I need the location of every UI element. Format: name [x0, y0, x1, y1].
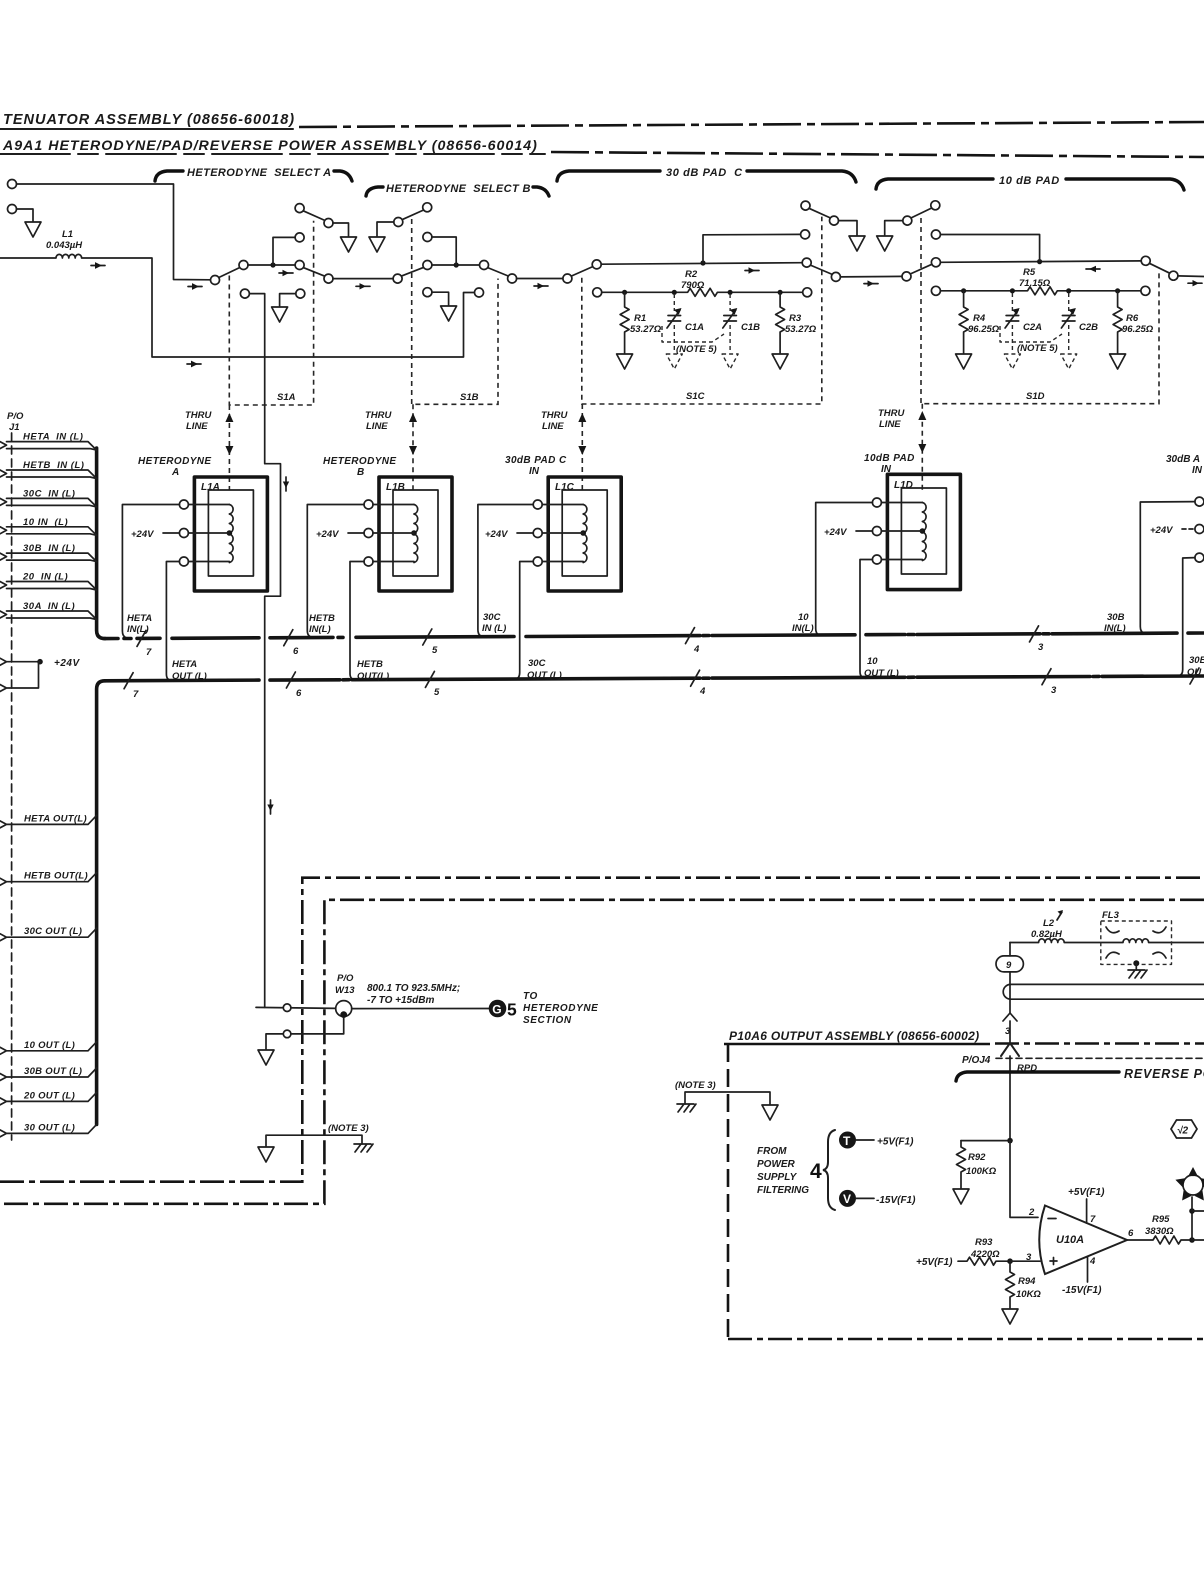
svg-text:HETERODYNE SELECT B: HETERODYNE SELECT B	[386, 183, 531, 195]
svg-text:S1D: S1D	[1026, 391, 1045, 402]
svg-text:IN(L): IN(L)	[309, 624, 331, 635]
heading bracket HETERODYNE SELECT B	[366, 187, 383, 196]
pad lower row with R2 zigzag	[593, 288, 602, 297]
wire note3 grounds	[685, 1092, 770, 1104]
relay L1C terminals	[533, 500, 542, 509]
ground	[258, 1050, 274, 1065]
wire count slash 3 bus IN	[1030, 626, 1039, 642]
svg-text:9: 9	[1006, 960, 1012, 971]
ground	[953, 1189, 969, 1204]
pin 4 supply	[1087, 1257, 1089, 1282]
J1 OUT collector heavy wire	[97, 681, 105, 1125]
svg-text:S1C: S1C	[686, 391, 705, 402]
FL3 ground junction	[1133, 960, 1139, 966]
inductor L1	[0, 254, 475, 357]
contact circle	[324, 219, 333, 228]
pin 7 supply	[1086, 1199, 1088, 1223]
svg-text:L2: L2	[1043, 918, 1055, 929]
ground	[369, 237, 385, 252]
SECTION: bottom left loop, W13, G5	[0, 878, 1204, 1204]
heading bracket 10dB PAD	[876, 179, 993, 189]
SECTION: top-left input	[0, 180, 475, 368]
test point V	[839, 1190, 856, 1207]
svg-text:96.25Ω: 96.25Ω	[968, 324, 1000, 335]
wire W13 to G5	[352, 1008, 489, 1010]
svg-text:L1B: L1B	[386, 482, 405, 493]
coax connector P/O W13	[336, 1001, 352, 1017]
lever	[911, 208, 932, 218]
note 5 dashed outline	[662, 326, 724, 342]
lower contact circle right with ground	[296, 289, 305, 298]
contact circle upper NO	[295, 233, 304, 242]
top pair right: contact circle	[931, 201, 940, 210]
chassis ground	[354, 1144, 373, 1152]
flow arrow	[1188, 282, 1202, 284]
contact circle upper	[423, 233, 432, 242]
heading bracket HETERODYNE SELECT A	[155, 171, 183, 181]
contact circle entry	[902, 272, 911, 281]
svg-text:S1B: S1B	[460, 392, 479, 403]
relay L1A coil	[229, 505, 233, 563]
svg-text:THRU: THRU	[878, 408, 906, 419]
series wire with junction	[940, 261, 1141, 262]
lamp symbol	[1183, 1175, 1203, 1195]
svg-text:HETERODYNE: HETERODYNE	[523, 1003, 598, 1014]
svg-text:IN: IN	[1192, 465, 1203, 476]
svg-text:800.1 TO 923.5MHz;: 800.1 TO 923.5MHz;	[367, 983, 460, 994]
ground	[441, 306, 457, 321]
svg-text:(NOTE 5): (NOTE 5)	[1017, 343, 1058, 354]
svg-text:0.043µH: 0.043µH	[46, 240, 83, 251]
svg-text:53.27Ω: 53.27Ω	[785, 324, 817, 335]
contact circle right	[1141, 256, 1150, 265]
brace	[823, 1130, 835, 1210]
svg-text:3: 3	[1038, 642, 1044, 653]
wire RPD to op-amp pin 2	[1010, 1141, 1038, 1218]
svg-text:R6: R6	[1126, 313, 1139, 324]
svg-text:-7 TO +15dBm: -7 TO +15dBm	[367, 995, 434, 1006]
svg-text:C2B: C2B	[1079, 322, 1098, 333]
relay L1A inner box	[208, 490, 253, 576]
contact circle pad left	[592, 260, 601, 269]
svg-text:10KΩ: 10KΩ	[1016, 1289, 1041, 1300]
svg-text:IN(L): IN(L)	[127, 624, 149, 635]
svg-text:B: B	[357, 467, 364, 478]
contact circle thru left	[324, 274, 333, 283]
svg-text:FILTERING: FILTERING	[757, 1185, 809, 1196]
feedthrough capacitor marks	[1106, 927, 1166, 958]
svg-text:W13: W13	[335, 985, 355, 996]
wire exit right	[1178, 275, 1204, 278]
wire count slash 7 bus IN	[137, 630, 146, 646]
svg-text:OUT(L): OUT(L)	[357, 671, 389, 682]
pin +24V second tied	[0, 662, 40, 692]
switch lever out	[1149, 263, 1169, 273]
wire to ground	[839, 221, 858, 235]
svg-text:R1: R1	[634, 313, 646, 324]
svg-text:IN: IN	[529, 466, 540, 477]
lower contact circle left	[240, 289, 249, 298]
svg-text:IN (L): IN (L)	[482, 623, 506, 634]
border dash-dot line assembly 60014 top	[551, 152, 1204, 157]
svg-text:(NOTE 3): (NOTE 3)	[328, 1123, 369, 1134]
contact circle pad left	[931, 258, 940, 267]
svg-text:2: 2	[1028, 1207, 1035, 1218]
connector J1 dashed line	[11, 433, 13, 1140]
svg-text:+24V: +24V	[1150, 525, 1173, 536]
svg-text:+24V: +24V	[316, 529, 339, 540]
ground	[258, 1147, 274, 1162]
svg-text:HETB: HETB	[309, 613, 335, 624]
svg-text:6: 6	[293, 646, 299, 657]
wire L1B in to bus	[307, 505, 364, 638]
svg-text:S1A: S1A	[277, 392, 296, 403]
relay L1D terminals	[872, 498, 881, 507]
svg-text:+24V: +24V	[824, 527, 847, 538]
relay L1D inner box	[901, 488, 946, 574]
dashed ground C1A	[666, 354, 682, 369]
ground	[877, 236, 893, 251]
svg-text:FL3: FL3	[1102, 910, 1120, 921]
svg-text:LINE: LINE	[366, 421, 388, 432]
svg-text:P/O: P/O	[7, 411, 24, 422]
ground	[25, 222, 41, 237]
svg-text:P/OJ4: P/OJ4	[962, 1055, 991, 1066]
svg-text:+5V(F1): +5V(F1)	[916, 1257, 953, 1268]
underline title 2 dashed	[0, 153, 545, 155]
svg-text:71.15Ω: 71.15Ω	[1019, 278, 1051, 289]
switch lever into pad	[572, 267, 594, 277]
pin +24V	[0, 658, 37, 665]
svg-text:20 OUT (L): 20 OUT (L)	[23, 1090, 75, 1101]
contact circle S1A pole	[239, 261, 248, 270]
svg-text:30 dB PAD C: 30 dB PAD C	[666, 167, 743, 179]
long wire to W13 with jog around L1A	[249, 294, 280, 1008]
wire L1A in to bus	[122, 505, 179, 639]
svg-text:R93: R93	[975, 1237, 993, 1248]
wire count slash 4 bus IN	[686, 628, 695, 644]
wire up to lamp	[1191, 1211, 1193, 1240]
dashed ground C1B	[722, 354, 738, 369]
variable capacitor C2B	[1068, 293, 1070, 311]
contact circle	[903, 216, 912, 225]
svg-text:TENUATOR ASSEMBLY (08656-60018: TENUATOR ASSEMBLY (08656-60018)	[3, 112, 295, 128]
svg-text:+24V: +24V	[54, 658, 80, 669]
wire thru segment	[333, 278, 393, 280]
wire junction up to upper contact	[432, 237, 456, 265]
SECTION: switch S1D 10dB pad	[877, 201, 1204, 404]
W13 shield wire to ground	[266, 1018, 344, 1049]
svg-text:T: T	[843, 1134, 851, 1148]
svg-text:C1A: C1A	[685, 322, 704, 333]
filter FL3 dashed box	[1101, 921, 1172, 964]
svg-text:THRU: THRU	[365, 410, 393, 421]
svg-text:30C OUT (L): 30C OUT (L)	[24, 926, 82, 937]
relay L1C coil	[583, 505, 587, 563]
svg-text:HETA OUT(L): HETA OUT(L)	[24, 813, 87, 824]
svg-text:IN: IN	[881, 464, 892, 475]
SECTION: switch S1C 30dB pad	[572, 201, 903, 404]
flow arrow	[745, 270, 759, 272]
svg-text:OUT (L): OUT (L)	[172, 671, 207, 682]
top pair left: contact circle	[801, 201, 810, 210]
top switch pair: contact circle	[295, 204, 304, 213]
svg-text:10: 10	[798, 612, 809, 623]
relay L1B inner box	[393, 490, 438, 576]
svg-text:L1C: L1C	[555, 482, 575, 493]
resistor R1	[620, 292, 629, 353]
series wire with junction	[601, 263, 802, 265]
terminal circle second input	[8, 205, 17, 214]
chassis ground	[1128, 970, 1147, 978]
big chevron arrow across border	[1001, 1043, 1019, 1056]
wire to ground	[377, 222, 394, 236]
svg-text:A: A	[171, 467, 179, 478]
svg-text:OUT (L): OUT (L)	[864, 668, 899, 679]
top switch pair right: contact circle	[423, 203, 432, 212]
switch lever down to thru	[488, 268, 509, 277]
connector pin 9 oval	[996, 956, 1023, 972]
S1D dashed box	[921, 218, 1159, 404]
svg-text:7: 7	[146, 647, 152, 658]
ground	[762, 1105, 778, 1120]
svg-text:30dB A: 30dB A	[1166, 454, 1200, 465]
ground	[272, 307, 288, 322]
contact circle	[830, 216, 839, 225]
wire L1D in to bus	[816, 503, 873, 636]
svg-text:A9A1 HETERODYNE/PAD/REVERSE PO: A9A1 HETERODYNE/PAD/REVERSE POWER ASSEMB…	[2, 138, 538, 154]
svg-text:R3: R3	[789, 313, 802, 324]
svg-text:4: 4	[810, 1160, 822, 1183]
svg-text:30C: 30C	[528, 658, 546, 669]
underline title 1	[0, 128, 293, 130]
svg-text:R5: R5	[1023, 267, 1036, 278]
SECTION: switch S1A	[211, 203, 432, 1008]
wire thru segment	[517, 278, 563, 280]
resistor R4	[959, 291, 968, 353]
svg-text:HETB OUT(L): HETB OUT(L)	[24, 871, 88, 882]
wire to 10dB pad	[840, 275, 902, 278]
ground	[341, 237, 357, 252]
pad lower row with R5 zigzag	[931, 286, 940, 295]
svg-text:4: 4	[693, 644, 700, 655]
wire to ground	[333, 223, 349, 236]
svg-text:30B: 30B	[1107, 612, 1125, 623]
svg-text:P/O: P/O	[337, 973, 354, 984]
svg-text:5: 5	[434, 687, 440, 698]
svg-text:REVERSE PO: REVERSE PO	[1124, 1067, 1204, 1081]
svg-text:L1: L1	[62, 229, 73, 240]
ground	[617, 354, 633, 369]
relay L1A outer box	[194, 477, 267, 591]
svg-text:+24V: +24V	[131, 529, 154, 540]
wire pole to NC contact with junction	[248, 264, 295, 266]
flow arrow vertical on jog	[285, 477, 287, 491]
flow arrow	[534, 285, 548, 287]
svg-text:7: 7	[1090, 1214, 1096, 1225]
svg-text:U10A: U10A	[1056, 1234, 1084, 1246]
inductor L2 and wire through FL3	[1010, 939, 1204, 943]
svg-text:96.25Ω: 96.25Ω	[1122, 324, 1154, 335]
SECTION: titles and heading brackets	[0, 112, 1204, 196]
wire to pin 3	[1010, 1260, 1040, 1262]
chassis ground	[677, 1104, 696, 1112]
contact circle NC	[295, 261, 304, 270]
svg-text:SUPPLY: SUPPLY	[757, 1172, 798, 1183]
lower contact circle right (to L1 wire)	[475, 288, 484, 297]
terminal circle on wire	[283, 1004, 291, 1012]
svg-text:TO: TO	[523, 991, 538, 1002]
svg-text:THRU: THRU	[541, 410, 569, 421]
wire junction up to upper contact	[273, 237, 295, 265]
wire count slash 4 bus OUT	[691, 670, 700, 686]
svg-text:R4: R4	[973, 313, 986, 324]
contact circle upper left	[931, 230, 940, 239]
contact circle right	[802, 258, 811, 267]
flow arrow	[356, 285, 370, 287]
svg-text:LINE: LINE	[542, 421, 564, 432]
bypass wire up over R2	[703, 234, 801, 263]
relay L1B outer box	[379, 477, 452, 591]
svg-text:IN(L): IN(L)	[792, 623, 814, 634]
svg-text:30B: 30B	[1189, 655, 1204, 666]
contact circle S1B pole	[423, 261, 432, 270]
contact circle thru right (S1C entry)	[563, 274, 572, 283]
bypass wire up over R5	[940, 235, 1039, 262]
heading bracket REVERSE POWER	[956, 1072, 1119, 1081]
svg-text:6: 6	[1128, 1228, 1134, 1239]
J1 IN collector heavy wire	[97, 448, 105, 639]
wire L1D out to bus	[860, 560, 872, 679]
wire count slash 7 bus OUT	[124, 673, 133, 689]
svg-text:HETB: HETB	[357, 659, 383, 670]
relay L1B terminals	[364, 500, 373, 509]
svg-text:10 OUT (L): 10 OUT (L)	[24, 1040, 75, 1051]
ground	[1002, 1309, 1018, 1324]
border dash-dot line assembly 60018 top	[299, 122, 1204, 127]
contact circle out	[1169, 271, 1178, 280]
resistor R94	[1006, 1261, 1015, 1308]
switch lever out	[810, 265, 832, 274]
resistor R93	[958, 1257, 1007, 1265]
svg-text:30C: 30C	[483, 612, 501, 623]
wire count slash 5 bus IN	[423, 629, 432, 645]
contact circle upper right	[801, 230, 810, 239]
lever	[402, 210, 424, 220]
lever	[809, 208, 831, 218]
svg-text:√2: √2	[1177, 1126, 1188, 1137]
resistor R3	[776, 292, 785, 353]
ground	[849, 236, 865, 251]
wire 30B in to bus	[1140, 502, 1195, 634]
svg-text:4: 4	[699, 686, 706, 697]
svg-text:IN(L): IN(L)	[1104, 623, 1126, 634]
flow arrow below input wire	[188, 286, 202, 288]
svg-text:L1A: L1A	[201, 482, 220, 493]
variable capacitor C1B	[729, 294, 731, 311]
svg-text:7: 7	[133, 689, 139, 700]
terminal circle on shield wire	[283, 1030, 291, 1038]
flow arrow on L1 wire	[91, 265, 105, 267]
dashed ground C2B	[1061, 354, 1077, 369]
flow arrow	[279, 272, 293, 274]
coax shield run	[1011, 984, 1204, 999]
svg-text:HETA: HETA	[172, 659, 197, 670]
svg-text:-15V(F1): -15V(F1)	[1062, 1285, 1102, 1296]
svg-text:R92: R92	[968, 1152, 986, 1163]
svg-text:R2: R2	[685, 269, 698, 280]
assembly border 60018 bottom loop dash-dot	[4, 900, 1204, 1204]
bus OUT heavy line	[105, 676, 1204, 681]
svg-text:30 OUT (L): 30 OUT (L)	[24, 1122, 75, 1133]
wire L1C out to bus	[515, 562, 534, 680]
svg-text:-15V(F1): -15V(F1)	[876, 1195, 916, 1206]
resistor R92	[961, 1140, 1007, 1142]
svg-text:R95: R95	[1152, 1214, 1170, 1225]
relay L1D outer box	[887, 474, 960, 589]
svg-text:THRU: THRU	[185, 410, 213, 421]
chevron arrow and count 3	[1003, 1013, 1017, 1021]
off sheet symbol G5	[489, 1000, 507, 1018]
S1C dashed box	[582, 217, 822, 404]
svg-text:3830Ω: 3830Ω	[1145, 1226, 1174, 1237]
svg-text:LINE: LINE	[879, 419, 901, 430]
svg-text:100KΩ: 100KΩ	[966, 1166, 997, 1177]
wire L1C in to bus	[478, 505, 533, 637]
SECTION: buses	[105, 612, 1204, 700]
svg-text:HETERODYNE: HETERODYNE	[138, 456, 211, 467]
heading bracket 30dB PAD C	[557, 171, 660, 181]
test symbol hexagon sqrt2	[1171, 1120, 1197, 1138]
wire to ground	[885, 221, 903, 235]
contact circle NC right	[480, 261, 489, 270]
dashed ground C2A	[1004, 354, 1020, 369]
contact circle thru left	[508, 274, 517, 283]
flow arrow vertical lower	[270, 800, 272, 814]
flow arrow on lower wire	[187, 363, 201, 365]
relay L1B coil	[414, 505, 418, 563]
terminal circle top input	[8, 180, 17, 189]
svg-text:4: 4	[1089, 1256, 1096, 1267]
ground	[772, 354, 788, 369]
contact circle thru right	[393, 274, 402, 283]
svg-text:30B OUT (L): 30B OUT (L)	[24, 1066, 82, 1077]
wire count slash right edge bus OUT	[1190, 668, 1199, 684]
svg-text:53.27Ω: 53.27Ω	[630, 324, 662, 335]
relay L1A terminals	[179, 500, 188, 509]
op-amp U10A	[1039, 1206, 1127, 1275]
assembly border left	[727, 1044, 730, 1339]
wire count slash 5 bus OUT	[425, 671, 434, 687]
svg-text:FROM: FROM	[757, 1146, 787, 1157]
lower contact circle left with ground	[423, 288, 432, 297]
flow arrow	[864, 283, 878, 285]
svg-text:3: 3	[1051, 685, 1057, 696]
SECTION: P10A6 output assembly	[675, 910, 1204, 1339]
svg-text:+5V(F1): +5V(F1)	[877, 1137, 914, 1148]
ground	[1110, 354, 1126, 369]
note 5 dashed outline	[1000, 326, 1062, 342]
svg-text:R94: R94	[1018, 1276, 1036, 1287]
svg-text:(NOTE 3): (NOTE 3)	[675, 1080, 716, 1091]
wire count slash 6 bus IN	[284, 630, 293, 646]
svg-text:6: 6	[296, 688, 302, 699]
wire L1B out to bus	[350, 562, 364, 681]
ground	[956, 354, 972, 369]
contact circle	[394, 218, 403, 227]
S1B dashed box	[412, 219, 498, 404]
svg-text:+5V(F1): +5V(F1)	[1068, 1187, 1105, 1198]
